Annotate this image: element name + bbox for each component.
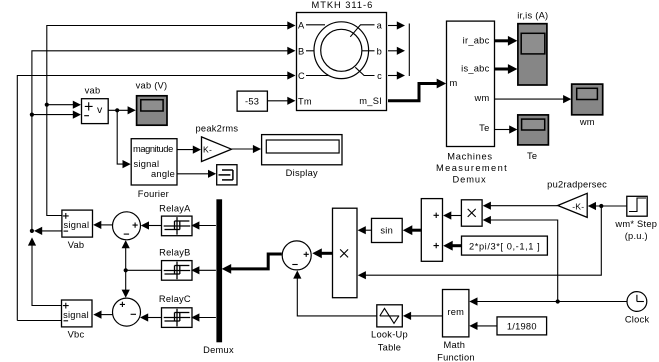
svg-text:A: A [298, 20, 305, 30]
svg-text:(p.u.): (p.u.) [625, 231, 648, 241]
svg-text:v: v [97, 104, 103, 116]
svg-text:Function: Function [437, 353, 475, 362]
svg-text:sin: sin [380, 226, 393, 236]
svg-text:wm* Step: wm* Step [614, 219, 657, 229]
svg-text:Demux: Demux [452, 174, 486, 184]
svg-text:signal: signal [63, 310, 89, 320]
svg-text:wm: wm [474, 93, 490, 103]
svg-text:RelayA: RelayA [159, 203, 191, 213]
svg-text:Demux: Demux [203, 345, 234, 355]
svg-text:Te: Te [479, 123, 489, 133]
svg-text:a: a [377, 20, 383, 30]
svg-text:Vbc: Vbc [68, 330, 85, 340]
svg-text:wm: wm [579, 117, 595, 127]
svg-text:Table: Table [378, 343, 401, 353]
svg-text:-53: -53 [245, 97, 259, 107]
svg-text:vab (V): vab (V) [136, 81, 168, 91]
svg-text:Clock: Clock [625, 315, 650, 325]
svg-text:ir_abc: ir_abc [463, 35, 490, 45]
svg-text:Fourier: Fourier [138, 189, 169, 199]
svg-text:B: B [298, 46, 304, 56]
svg-text:Machines: Machines [447, 152, 492, 162]
svg-text:MTKH 311-6: MTKH 311-6 [312, 0, 373, 10]
svg-text:rem: rem [447, 307, 464, 317]
svg-text:-K-: -K- [572, 202, 584, 212]
svg-text:Look-Up: Look-Up [371, 330, 408, 340]
svg-text:signal: signal [134, 159, 160, 169]
svg-text:Display: Display [286, 168, 318, 178]
svg-text:signal: signal [64, 220, 90, 230]
svg-text:magnitude: magnitude [133, 144, 174, 154]
svg-text:m_SI: m_SI [359, 96, 382, 106]
svg-text:Tm: Tm [298, 96, 312, 106]
svg-text:C: C [298, 71, 305, 81]
svg-text:angle: angle [151, 169, 175, 179]
svg-text:1/1980: 1/1980 [507, 321, 537, 331]
svg-text:vab: vab [85, 86, 101, 96]
svg-text:K-: K- [203, 145, 212, 155]
svg-text:Te: Te [527, 151, 537, 161]
svg-text:c: c [377, 71, 382, 81]
svg-text:Math: Math [443, 340, 465, 350]
svg-text:b: b [377, 46, 382, 56]
svg-text:RelayC: RelayC [159, 294, 191, 304]
svg-text:is_abc: is_abc [461, 64, 489, 74]
svg-text:Vab: Vab [68, 240, 85, 250]
svg-text:RelayB: RelayB [159, 247, 190, 257]
svg-text:2*pi/3*[ 0,-1,1 ]: 2*pi/3*[ 0,-1,1 ] [469, 241, 540, 251]
svg-text:peak2rms: peak2rms [195, 123, 238, 133]
svg-text:pu2radpersec: pu2radpersec [547, 180, 607, 190]
svg-text:ir,is (A): ir,is (A) [517, 11, 548, 21]
svg-text:m: m [450, 78, 458, 88]
